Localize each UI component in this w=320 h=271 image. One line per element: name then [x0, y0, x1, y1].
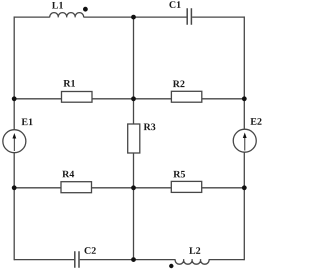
wire bottom: C2 to middle node	[80, 259, 134, 261]
E2 arrow	[244, 137, 246, 151]
node dot middle R1 row	[131, 96, 136, 101]
polarity dot L2	[169, 264, 173, 268]
wire bottom: L2 to bottom-right corner	[209, 259, 244, 261]
wire left rail: node to E1	[13, 99, 15, 130]
wire left rail lower	[13, 188, 15, 260]
node dot middle cross	[131, 185, 136, 190]
wire R2 row: middle node to R2	[134, 98, 172, 100]
node dot top middle	[131, 15, 136, 20]
wire middle rail: R3 to cross node	[133, 153, 135, 188]
label L2 (width 11.7)	[189, 247, 200, 254]
source E1	[3, 130, 26, 153]
wire top: C1 to top-right corner	[192, 16, 244, 18]
wire left rail upper	[13, 16, 15, 98]
wire R4 row: R4 to cross node	[92, 187, 134, 189]
label C1 (width 12.2)	[169, 1, 180, 8]
wire middle rail: cross node to bottom node	[133, 188, 135, 260]
label R5 (width 12.2)	[173, 171, 185, 178]
label E2 (width 11.7)	[250, 118, 261, 125]
label R2 (width 12.2)	[173, 80, 185, 87]
node dot left R1 row	[12, 96, 17, 101]
wire top: L1 to C1	[84, 16, 187, 18]
polarity dot L1	[83, 7, 88, 12]
wire middle rail: top node down to R1 row node	[133, 17, 135, 99]
wire right rail: node to E2	[243, 99, 245, 130]
wire right rail upper	[243, 16, 245, 98]
E1 arrowhead	[12, 133, 16, 139]
wire R5 row: cross node to R5	[134, 187, 172, 189]
label C2 (width 12.2)	[84, 247, 95, 254]
wire middle rail: node to R3	[133, 99, 135, 124]
E2 arrowhead	[243, 133, 247, 139]
wire left rail: E1 to node	[13, 153, 15, 188]
inductor L2	[175, 259, 209, 264]
resistor R2	[171, 91, 201, 102]
wire right rail lower	[243, 188, 245, 260]
wire R4 row: left node to R4	[14, 187, 61, 189]
label R3 (width 12.2)	[144, 123, 156, 130]
node dot bottom middle	[131, 257, 136, 262]
wire bottom: node to L2	[134, 259, 176, 261]
resistor R5	[171, 181, 201, 192]
wire R1 row: left node to R1	[14, 98, 61, 100]
node dot right R2 row	[242, 96, 247, 101]
label R1 (width 12.2)	[63, 80, 75, 87]
label E1 (width 11.7)	[22, 118, 33, 125]
inductor L1	[50, 13, 84, 18]
wire R1 row: R1 to middle node	[92, 98, 134, 100]
resistor R4	[61, 182, 92, 193]
capacitor C1	[187, 8, 191, 24]
wire R5 row: R5 to right node	[202, 187, 245, 189]
resistor R1	[62, 92, 93, 103]
capacitor C2	[75, 251, 79, 267]
E1 arrow	[13, 137, 15, 151]
wire top-left: corner to L1	[14, 16, 50, 18]
wire R2 row: R2 to right node	[202, 98, 245, 100]
node dot left R4 row	[12, 185, 17, 190]
wire bottom: corner to C2	[14, 259, 74, 261]
label R4 (width 12.2)	[62, 171, 74, 178]
label L1 (width 11.7)	[52, 2, 63, 9]
source E2	[233, 129, 256, 152]
wire right rail: E2 to node	[243, 152, 245, 188]
node dot right R5 row	[242, 185, 247, 190]
resistor R3	[128, 124, 140, 153]
